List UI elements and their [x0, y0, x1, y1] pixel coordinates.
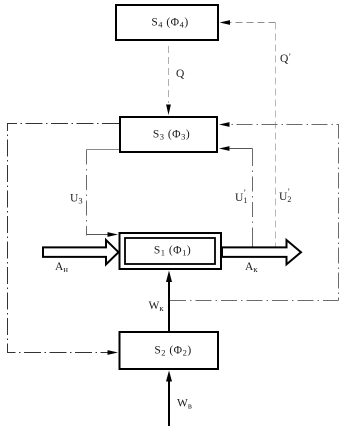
- svg-text:Q: Q: [176, 68, 185, 80]
